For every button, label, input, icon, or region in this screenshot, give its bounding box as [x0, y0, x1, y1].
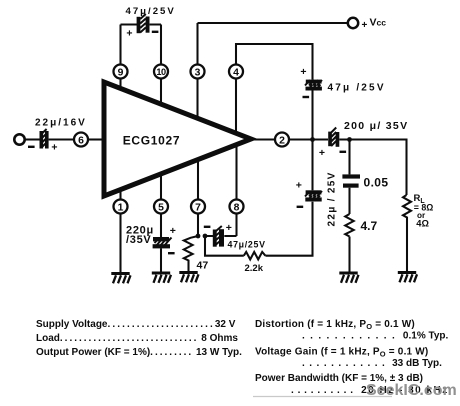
ground pin5 [152, 272, 171, 283]
svg-text:+: + [296, 180, 302, 192]
op-amp U1 ECG1027 [104, 82, 251, 196]
pin 8 [230, 200, 244, 214]
svg-text:+: + [319, 147, 325, 159]
capacitor C2 47u/25V top [137, 14, 150, 33]
wire [25, 138, 40, 140]
capacitor C1 22u/16V [40, 129, 49, 149]
capacitor C7 200u/35V [328, 128, 339, 147]
svg-text:22μ/16V: 22μ/16V [35, 118, 87, 129]
resistor R4 RL [403, 195, 411, 272]
input terminal [14, 134, 24, 144]
ground pin1 [111, 272, 130, 283]
pin 1 [114, 200, 128, 214]
wire [265, 202, 312, 256]
wire [348, 188, 350, 214]
wire pin10 stub [160, 25, 162, 105]
wire pin7 stub [197, 160, 199, 236]
svg-text:Distortion (f = 1 kHz, PO = 0.: Distortion (f = 1 kHz, PO = 0.1 W) [255, 319, 415, 331]
svg-text:+: + [170, 225, 176, 237]
wire [205, 235, 237, 237]
svg-text:Vcc: Vcc [370, 17, 387, 29]
wire [160, 248, 162, 272]
ground R3 [339, 272, 358, 283]
svg-text:Voltage Gain (f = 1 kHz, PO =: Voltage Gain (f = 1 kHz, PO = 0.1 W) [255, 347, 428, 359]
svg-text:............ 33 dB Typ.: ............ 33 dB Typ. [302, 358, 442, 369]
capacitor C6 22u/25V [305, 190, 322, 201]
wire feedback bottom [205, 236, 244, 256]
svg-text:5: 5 [158, 202, 164, 213]
wire Vcc rail [198, 22, 348, 24]
svg-text:4Ω: 4Ω [416, 219, 429, 229]
svg-text:4.7: 4.7 [361, 219, 378, 233]
node pin7 junction [196, 234, 201, 239]
wire pin9 stub [119, 25, 121, 89]
svg-text:2.2k: 2.2k [245, 263, 264, 274]
capacitor C4 220u/35V [153, 237, 172, 248]
node junction B [347, 137, 352, 142]
svg-text:2: 2 [279, 135, 285, 146]
svg-text:47μ/25V: 47μ/25V [126, 6, 176, 17]
wire [339, 140, 406, 196]
pin 3 [191, 65, 205, 79]
polarity - [340, 151, 347, 153]
capacitor C3 47u/25V right [305, 80, 322, 91]
capacitor C5 47u/25V feedback [213, 226, 224, 247]
ground R1 [179, 271, 198, 282]
pin 6 [74, 133, 88, 147]
ground RL [398, 271, 417, 282]
svg-text:ECG1027: ECG1027 [123, 134, 181, 148]
pin 10 [154, 65, 168, 79]
svg-text:4: 4 [233, 67, 239, 78]
svg-text:+: + [51, 142, 57, 154]
pin 9 [114, 65, 128, 79]
svg-text:Load..........................: Load............................. 8 Ohms [36, 333, 238, 344]
pin 4 [229, 65, 243, 79]
capacitor C8 0.05 [342, 174, 360, 187]
Vcc terminal [348, 18, 358, 28]
node junction A [310, 137, 315, 142]
svg-text:+: + [362, 20, 368, 31]
svg-text:Supply Voltage................: Supply Voltage......................32 V [36, 319, 236, 330]
svg-text:22μ / 25V: 22μ / 25V [327, 171, 338, 226]
svg-text:47μ /25V: 47μ /25V [328, 83, 386, 94]
svg-text:7: 7 [195, 202, 201, 213]
svg-text:............ 0.1% Typ.: ............ 0.1% Typ. [302, 331, 449, 342]
wire [88, 138, 102, 140]
svg-text:8: 8 [234, 202, 240, 213]
wire [49, 138, 74, 140]
resistor R1 47 [184, 236, 198, 272]
wire pin4 stub [236, 44, 313, 133]
wire pin5 stub [160, 175, 162, 238]
polarity - [204, 226, 211, 228]
svg-text:10: 10 [156, 67, 166, 77]
pin 7 [191, 200, 205, 214]
wire 0.05 branch [348, 140, 350, 175]
svg-text:9: 9 [118, 67, 124, 78]
svg-text:3: 3 [195, 67, 201, 78]
wire [348, 237, 350, 273]
wire pin8 stub [235, 145, 237, 237]
svg-text:+: + [300, 66, 306, 78]
wire [289, 138, 328, 140]
svg-text:/35V: /35V [126, 234, 151, 246]
svg-text:0.05: 0.05 [364, 176, 389, 190]
svg-text:47: 47 [197, 260, 209, 272]
svg-text:47μ/25V: 47μ/25V [228, 240, 266, 250]
polarity - [152, 31, 159, 33]
polarity - [168, 252, 175, 254]
pin 5 [154, 200, 168, 214]
polarity - [303, 96, 310, 98]
svg-text:+: + [226, 222, 232, 234]
svg-text:6: 6 [78, 135, 84, 146]
wire [311, 91, 313, 140]
svg-text:Output Power (KF = 1%)........: Output Power (KF = 1%)......... 13 W Typ… [36, 347, 242, 358]
wire pin3 stub [196, 23, 198, 118]
resistor R3 4.7 [345, 214, 354, 237]
resistor R2 2.2k [244, 252, 266, 260]
wire top cap [121, 23, 162, 25]
polarity - [297, 206, 304, 208]
svg-text:+: + [126, 28, 132, 40]
wire output [251, 138, 275, 140]
svg-text:200 μ/ 35V: 200 μ/ 35V [344, 120, 408, 132]
svg-text:1: 1 [118, 202, 124, 213]
polarity - [28, 146, 35, 148]
pin 2 [275, 133, 289, 147]
wire pin1 stub [119, 190, 121, 272]
wire [311, 139, 313, 190]
